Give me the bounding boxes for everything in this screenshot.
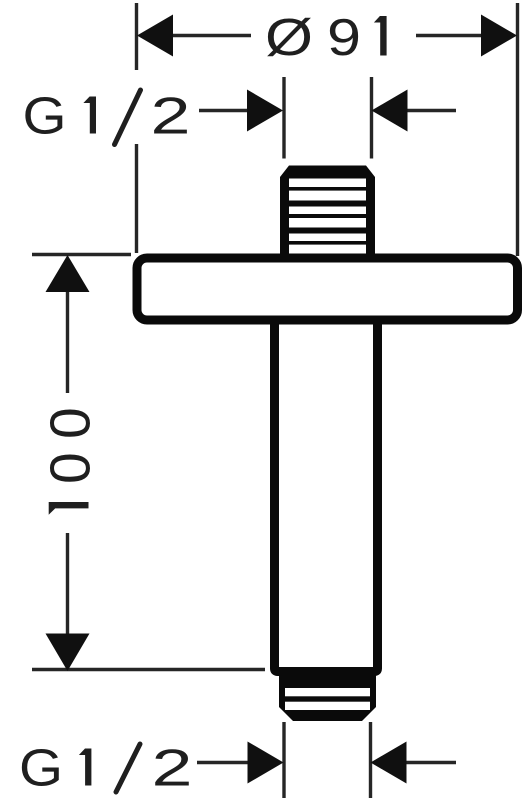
svg-text:2: 2 (151, 88, 191, 146)
svg-text:9: 9 (327, 9, 361, 67)
svg-text:Ø: Ø (265, 9, 313, 67)
svg-text:G: G (23, 88, 67, 146)
svg-text:00: 00 (39, 394, 103, 484)
svg-text:G: G (19, 740, 63, 798)
svg-text:2: 2 (152, 740, 193, 798)
